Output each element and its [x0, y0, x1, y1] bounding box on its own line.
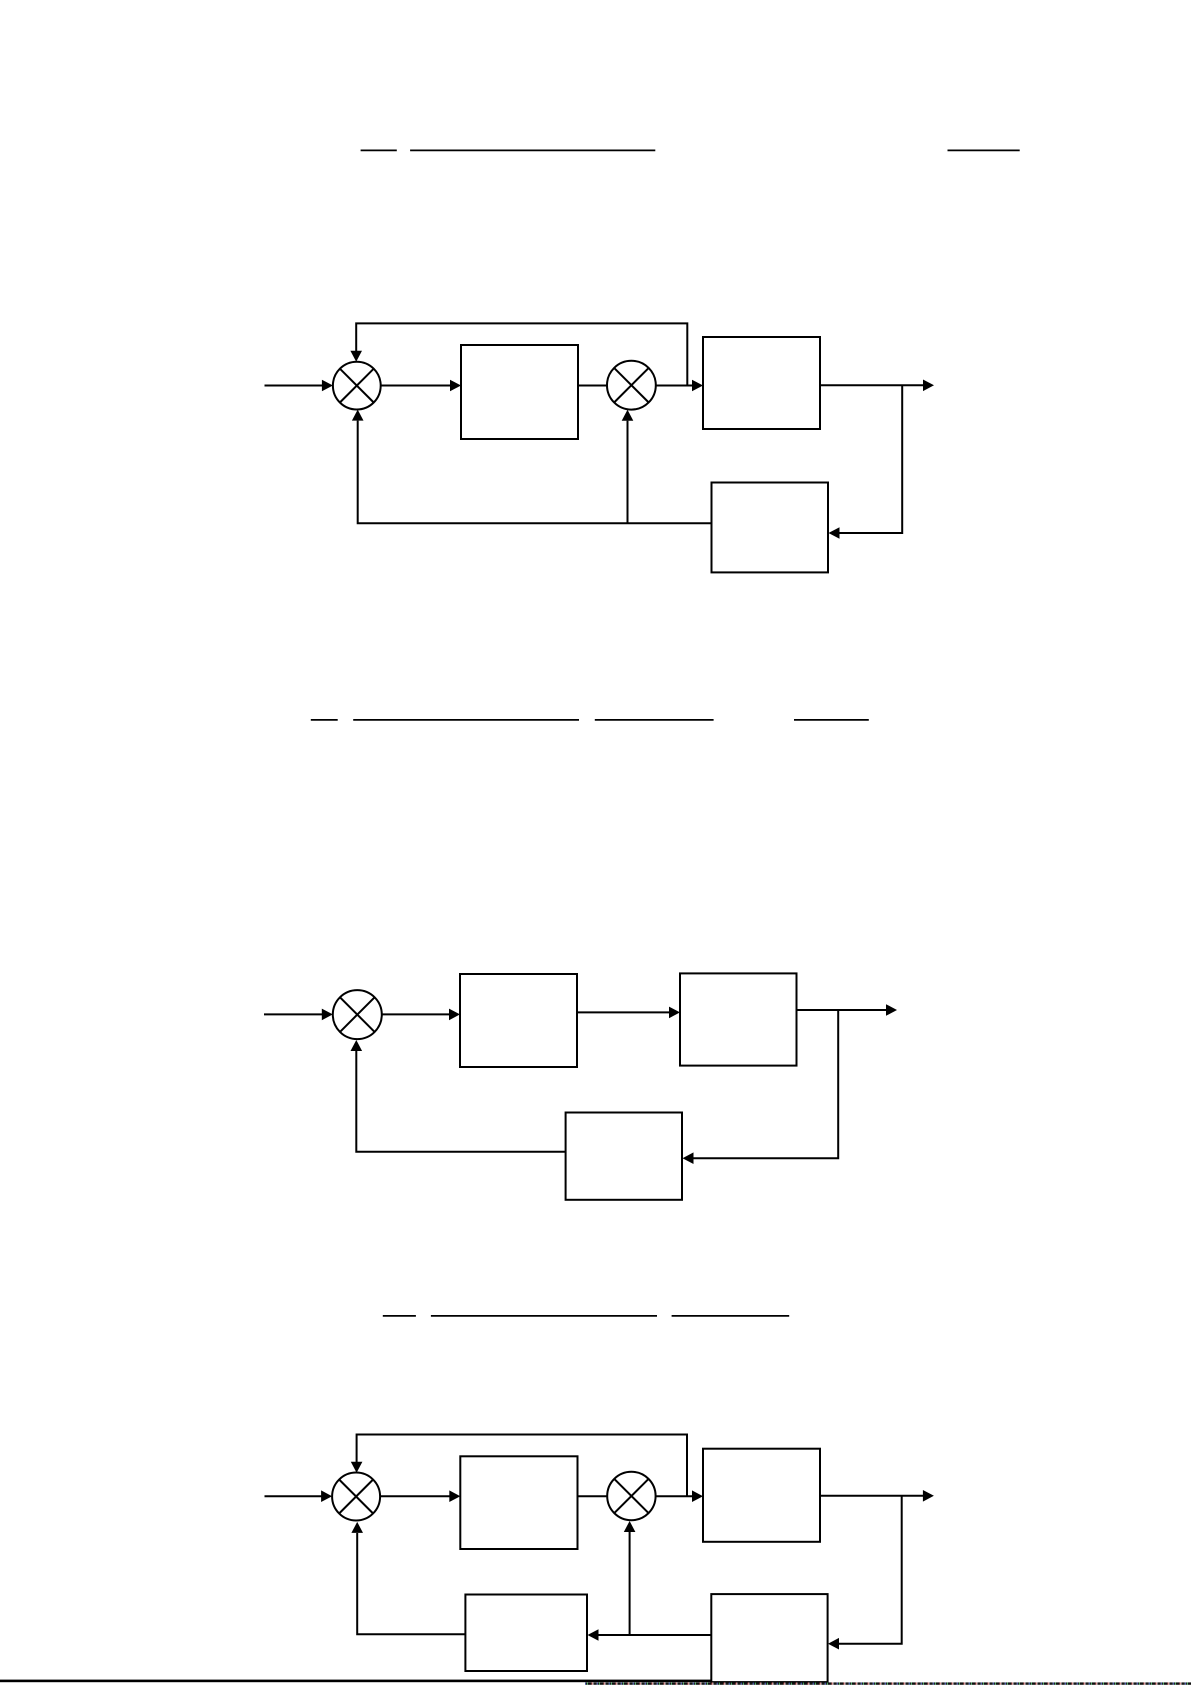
- block B2 (diagram 3 plant block): [703, 1449, 820, 1542]
- wire: S5 output to block B2: [656, 1490, 703, 1502]
- wire: S3 output to block G3: [382, 1009, 460, 1021]
- block G1 (diagram 1 forward block): [461, 345, 578, 439]
- block B4 (diagram 3 first feedback block): [711, 1594, 827, 1682]
- page edge noise strip: [585, 1682, 1191, 1684]
- block G3 (diagram 2 first forward block): [460, 974, 577, 1067]
- wire: S2 output to block G2: [656, 380, 703, 392]
- summing junction S5 (diagram 3): [607, 1472, 655, 1520]
- fraction bar: equation 2 result: [794, 719, 869, 721]
- block B3 (diagram 3 second feedback block): [465, 1595, 587, 1672]
- block B1 (diagram 3 forward block): [460, 1456, 577, 1549]
- wire: feedback tap up into S2 (diagram 1): [622, 410, 634, 524]
- wire: H1 output feedback to S1 (diagram 1): [352, 410, 712, 524]
- block H1 (diagram 1 feedback block): [712, 483, 829, 573]
- page bottom border line: [0, 1680, 711, 1683]
- wire: B4 output to block B3 arrow: [588, 1629, 712, 1641]
- wire: top feedback loop from G2 input node to S1 (diagram 1): [350, 323, 687, 385]
- wire: output branch down into block H1: [829, 385, 903, 539]
- fraction bar: equation 3 term 3: [672, 1315, 790, 1317]
- wire: diagram 1 input arrow into summing junction S1: [265, 380, 333, 392]
- wire: B1 output to summing junction S5: [578, 1495, 608, 1497]
- wire: S4 output to block B1: [380, 1490, 460, 1502]
- summing junction S2 (diagram 1): [607, 361, 656, 410]
- fraction bar: equation 2 term 3: [595, 719, 714, 721]
- fraction bar: equation 1 term 1: [361, 149, 397, 151]
- fraction bar: equation 1 term 2: [410, 149, 655, 151]
- fraction bar: equation 1 result: [948, 149, 1020, 151]
- wire: diagram 2 input arrow into summing junction S3: [264, 1009, 333, 1021]
- wire: G1 output to summing junction S2: [578, 385, 608, 387]
- fraction bar: equation 3 term 1: [383, 1315, 416, 1317]
- wire: G4 output to C(s) arrow (diagram 2): [797, 1004, 898, 1016]
- fraction bar: equation 2 term 1: [311, 719, 338, 721]
- wire: S1 output to block G1: [381, 380, 461, 392]
- wire: output branch down into block B4 (diagram 3): [828, 1496, 902, 1650]
- wire: H2 output feedback up into S3 (diagram 2): [351, 1040, 566, 1152]
- fraction bar: equation 3 term 2: [431, 1315, 657, 1317]
- wire: output branch down into block H2 (diagram 2): [683, 1010, 839, 1164]
- wire: B3 output feedback up into S4 (diagram 3): [351, 1522, 465, 1634]
- wire: B2 output to C(s) arrow (diagram 3): [820, 1490, 934, 1502]
- block G2 (diagram 1 plant block): [703, 337, 820, 429]
- summing junction S3 (diagram 2): [333, 990, 382, 1039]
- wire: diagram 3 input arrow into summing junction S4: [265, 1490, 333, 1502]
- summing junction S1 (diagram 1): [333, 362, 381, 410]
- wire: top feedback loop from B2 input node to S4 (diagram 3): [351, 1435, 687, 1497]
- fraction bar: equation 2 term 2: [353, 719, 579, 721]
- block H2 (diagram 2 feedback block): [566, 1113, 682, 1200]
- wire: feedback tap up into S5 (diagram 3): [624, 1521, 636, 1635]
- block G4 (diagram 2 second forward block): [680, 973, 797, 1065]
- wire: G3 output to block G4: [577, 1007, 680, 1019]
- wire: G2 output to C(s) arrow: [820, 380, 934, 392]
- summing junction S4 (diagram 3): [332, 1473, 380, 1521]
